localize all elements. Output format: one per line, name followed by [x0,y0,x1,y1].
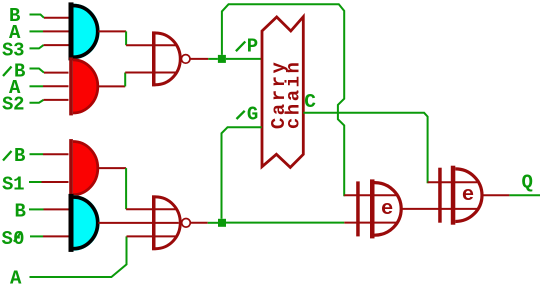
XOR gate X2 (equivalence 'e') [438,166,482,225]
wire B to gate A4 pin1 [44,208,69,210]
svg-text:e: e [462,184,474,207]
wire A to gate A2 pin2 [43,85,69,87]
wire B to gate A1 pin1 [44,17,69,19]
svg-text:C: C [304,91,316,113]
wire N2 output to junction 2 [191,222,219,224]
svg-text:Q: Q [522,172,533,194]
wire S3 to gate A1 pin3 [44,44,69,46]
junction node /P [218,55,226,63]
node /G (label) [237,104,259,126]
wire A4 output to NAND N2 pin2 [98,222,179,224]
wire S0 label lead [30,235,43,237]
AND gate A1 (cyan filled, 3-input) [69,2,100,60]
svg-text:S0: S0 [2,228,25,250]
wire A1 output to NAND N1 pin1 (jog) [98,31,176,45]
node /B (input label) [3,61,25,83]
svg-text:S1: S1 [2,173,25,195]
svg-text:S2: S2 [2,94,25,116]
wire /B to gate A2 pin1 [44,72,69,74]
wire N1 output to junction [190,58,218,60]
svg-text:e: e [381,198,393,221]
wire /P to carry chain [226,58,262,60]
carry chain block U1 [262,17,303,168]
wire S2 label lead [30,100,44,103]
wire A label lead [30,30,44,32]
wire A to NAND N2 pin3 (bottom route) [30,236,177,277]
wire /B label lead [30,153,44,155]
wire S1 label lead [29,181,42,183]
svg-text:chain: chain [283,62,305,129]
wire /P net to XOR X1 pin1 (top route) [222,4,398,196]
wire /B label lead [30,69,45,73]
svg-text:B: B [15,200,26,222]
carry chain block U1 title line 1 [268,62,290,130]
node /B (lower input label) [3,145,25,167]
wire S0 to gate A4 pin2 [43,235,69,237]
wire A2 output to NAND N1 pin2 (jog) [98,73,176,87]
wire /B to gate A3 pin1 [43,153,69,155]
svg-text:G: G [247,104,258,126]
AND gate A2 (red filled, 3-input) [69,57,98,115]
wire A to gate A1 pin2 [43,30,69,32]
node S0 (input label, slashed zero) [2,228,25,250]
wire S2 to gate A2 pin3 [44,99,69,101]
wire junction 2 to XOR X1 pin2 [226,222,397,224]
svg-text:B: B [14,145,25,167]
NAND gate N2 (3-input with bubble) [152,195,190,250]
wire X1 output to XOR X2 pin2 [401,208,478,210]
junction node 2 [218,219,226,227]
wire S3 label lead [30,45,44,48]
svg-text:A: A [10,267,22,289]
carry chain block U1 title line 2 [283,62,305,129]
wire X2 output to Q [482,194,540,196]
wire A label lead [30,85,44,87]
NAND gate N1 (2-input with bubble) [152,31,190,86]
wire B label lead [30,15,45,18]
wire S1 to gate A3 pin2 [42,181,69,183]
AND gate A3 (red filled, 2-input) [69,139,98,197]
wire C from carry chain to XOR X2 pin1 [303,113,477,183]
node /P (label) [236,36,258,58]
wire B label lead [29,208,44,210]
svg-text:P: P [247,36,258,58]
XOR gate X1 (equivalence 'e') [356,179,401,238]
wire A3 output to NAND N2 pin1 (jog) [98,168,176,209]
wire /G net from junction 2 to carry chain [222,127,262,219]
svg-text:S3: S3 [2,39,25,61]
AND gate A4 (cyan filled, 2-input) [69,194,100,252]
